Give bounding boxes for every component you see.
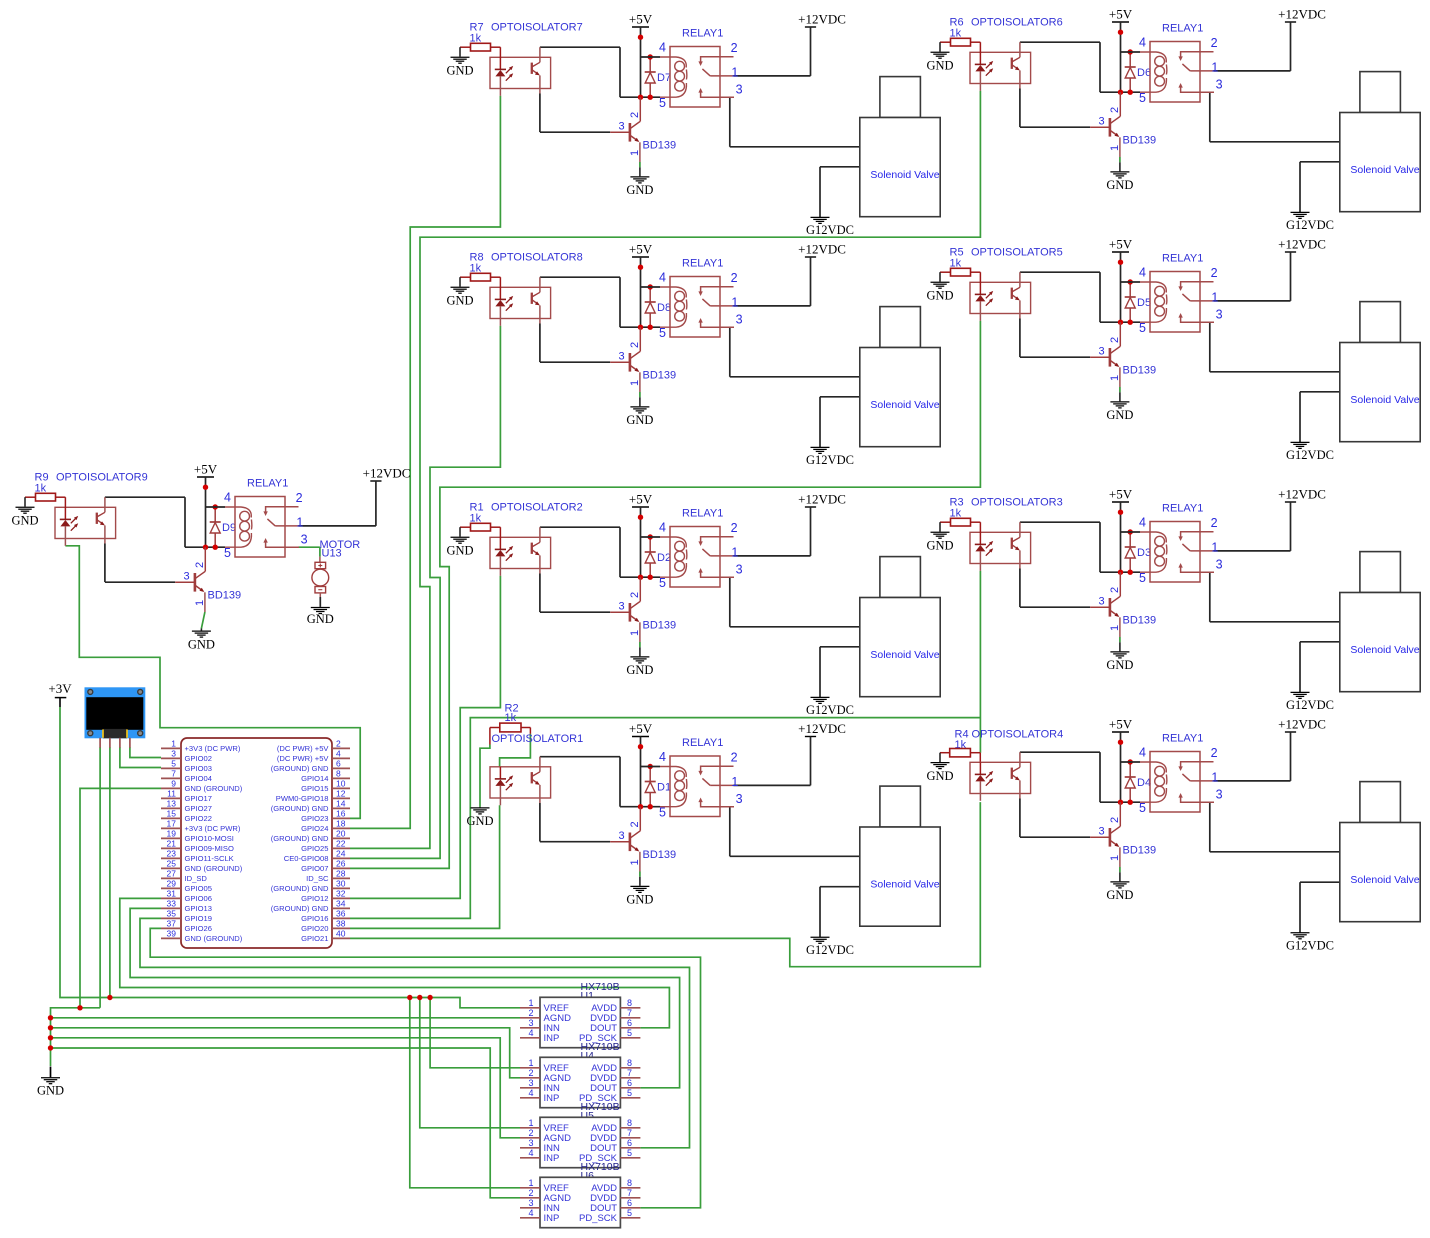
svg-text:GND: GND — [446, 543, 473, 557]
svg-text:6: 6 — [627, 1018, 632, 1028]
+12VDC supply — [798, 721, 846, 786]
svg-text:GND (GROUND): GND (GROUND) — [185, 864, 243, 873]
svg-text:2: 2 — [296, 491, 303, 505]
svg-text:2: 2 — [731, 521, 738, 535]
wire R4 to GPIO21 — [350, 802, 980, 967]
svg-text:+3V3 (DC PWR): +3V3 (DC PWR) — [185, 824, 241, 833]
wire — [1214, 780, 1291, 782]
transistor Q BD139 — [1090, 572, 1156, 637]
wire — [820, 167, 860, 217]
ground — [926, 763, 953, 783]
wire — [540, 803, 610, 842]
svg-text:1: 1 — [1211, 540, 1218, 554]
svg-text:1: 1 — [629, 859, 641, 865]
svg-text:4: 4 — [1139, 36, 1146, 50]
resistor R2 1k — [490, 703, 531, 745]
solenoid valve — [1340, 72, 1420, 212]
svg-text:+5V: +5V — [629, 721, 653, 736]
svg-text:17: 17 — [167, 819, 177, 829]
optoisolator OPTOISOLATOR3 — [970, 497, 1063, 571]
junction — [1118, 30, 1123, 35]
svg-text:G12VDC: G12VDC — [1286, 448, 1334, 462]
svg-text:1: 1 — [629, 380, 641, 386]
wire — [299, 525, 376, 527]
svg-text:(DC PWR) +5V: (DC PWR) +5V — [277, 744, 330, 753]
svg-text:BD139: BD139 — [643, 849, 677, 861]
svg-text:5: 5 — [1139, 321, 1146, 335]
svg-text:RELAY1: RELAY1 — [682, 27, 723, 39]
+12VDC supply — [1278, 716, 1326, 781]
solenoid valve — [1340, 302, 1420, 442]
wire — [540, 574, 610, 613]
resistor R4 1k — [940, 729, 980, 763]
svg-text:7: 7 — [627, 1068, 632, 1078]
svg-text:5: 5 — [659, 326, 666, 340]
ground G12VDC — [806, 217, 854, 237]
+5V supply — [629, 721, 653, 807]
relay RELAY1 — [641, 507, 743, 590]
svg-text:28: 28 — [336, 869, 346, 879]
wire — [1020, 89, 1090, 128]
optoisolator OPTOISOLATOR5 — [970, 247, 1063, 321]
junction — [1118, 570, 1123, 575]
svg-text:GPIO27: GPIO27 — [185, 804, 212, 813]
svg-text:OPTOISOLATOR8: OPTOISOLATOR8 — [491, 252, 583, 264]
optoisolator OPTOISOLATOR7 — [490, 22, 583, 96]
+12VDC supply — [1278, 236, 1326, 301]
junction — [77, 1005, 82, 1010]
svg-text:G12VDC: G12VDC — [806, 223, 854, 237]
svg-text:BD139: BD139 — [643, 370, 677, 382]
svg-text:3: 3 — [528, 1198, 533, 1208]
ground G12VDC — [806, 447, 854, 467]
diode D4 — [1125, 762, 1151, 802]
svg-text:GND: GND — [626, 663, 653, 677]
svg-text:G12VDC: G12VDC — [806, 703, 854, 717]
wire R3/R4 to GPIO16 — [979, 571, 981, 753]
wire — [319, 597, 321, 607]
junction — [1128, 800, 1133, 805]
+3V supply — [48, 681, 72, 707]
svg-text:2: 2 — [528, 1128, 533, 1138]
svg-text:RELAY1: RELAY1 — [1162, 22, 1203, 34]
svg-text:GND: GND — [926, 58, 953, 72]
svg-text:D3: D3 — [1137, 547, 1151, 559]
wire R9 to GPIO23 — [65, 546, 360, 819]
junction — [48, 1025, 53, 1030]
svg-text:16: 16 — [336, 809, 346, 819]
wire — [1119, 637, 1121, 642]
svg-text:GND: GND — [626, 183, 653, 197]
junction — [638, 265, 643, 270]
wire — [1119, 157, 1121, 162]
junction — [48, 1035, 53, 1040]
diode D9 — [210, 507, 236, 547]
svg-text:4: 4 — [659, 41, 666, 55]
svg-text:Solenoid Valve: Solenoid Valve — [870, 878, 939, 890]
svg-text:+5V: +5V — [1109, 486, 1133, 501]
svg-text:+5V: +5V — [1109, 236, 1133, 251]
wire DOUT U5 to GPIO19 — [140, 918, 690, 1147]
svg-text:GND: GND — [1106, 178, 1133, 192]
wire VREF U4 — [430, 998, 520, 1068]
wire — [1020, 319, 1090, 358]
svg-text:5: 5 — [1139, 571, 1146, 585]
svg-text:INP: INP — [544, 1093, 560, 1104]
svg-text:3: 3 — [184, 571, 190, 583]
wire OLED SCL to GPIO03 — [120, 747, 161, 767]
svg-text:13: 13 — [167, 799, 177, 809]
svg-text:OPTOISOLATOR4: OPTOISOLATOR4 — [972, 729, 1064, 741]
junction — [648, 54, 653, 59]
svg-text:33: 33 — [167, 899, 177, 909]
svg-text:35: 35 — [167, 909, 177, 919]
svg-text:18: 18 — [336, 819, 346, 829]
transistor Q BD139 — [1090, 802, 1156, 867]
svg-text:2: 2 — [1109, 817, 1121, 823]
relay RELAY1 — [1121, 732, 1223, 815]
transistor Q BD139 — [1090, 322, 1156, 387]
relay RELAY1 — [1121, 22, 1223, 105]
wire — [730, 97, 860, 147]
svg-text:5: 5 — [659, 576, 666, 590]
ground G12VDC — [806, 937, 854, 957]
svg-text:GPIO06: GPIO06 — [185, 894, 212, 903]
junction — [1118, 90, 1123, 95]
svg-text:4: 4 — [659, 271, 666, 285]
wire — [1214, 550, 1291, 552]
transistor Q BD139 — [610, 97, 676, 162]
svg-text:BD139: BD139 — [208, 590, 242, 602]
svg-text:2: 2 — [1109, 107, 1121, 113]
junction — [1128, 759, 1133, 764]
svg-text:(DC PWR) +5V: (DC PWR) +5V — [277, 754, 330, 763]
wire R2 to GPIO20 — [350, 805, 500, 928]
wire — [1214, 70, 1291, 72]
svg-text:GND (GROUND): GND (GROUND) — [185, 934, 243, 943]
svg-text:GPIO25: GPIO25 — [301, 844, 328, 853]
junction — [1128, 529, 1133, 534]
svg-text:38: 38 — [336, 919, 346, 929]
svg-text:2: 2 — [528, 1188, 533, 1198]
ground G12VDC — [806, 697, 854, 717]
svg-text:2: 2 — [194, 562, 206, 568]
svg-text:14: 14 — [336, 799, 346, 809]
wire — [201, 612, 205, 628]
ic U-RaspberryPi GPIO header — [161, 738, 350, 948]
ground G12VDC — [1286, 933, 1334, 953]
junction — [648, 325, 653, 330]
svg-text:D8: D8 — [657, 302, 671, 314]
svg-text:+5V: +5V — [194, 461, 218, 476]
svg-text:1: 1 — [1211, 290, 1218, 304]
svg-text:1: 1 — [171, 739, 176, 749]
svg-text:7: 7 — [171, 769, 176, 779]
svg-text:+12VDC: +12VDC — [363, 465, 411, 480]
junction — [1128, 320, 1133, 325]
svg-text:GND: GND — [188, 637, 215, 651]
wire — [1300, 882, 1340, 932]
junction — [48, 1015, 53, 1020]
svg-text:39: 39 — [167, 929, 177, 939]
ground G12VDC — [1286, 692, 1334, 712]
svg-text:GND: GND — [926, 769, 953, 783]
svg-text:GND: GND — [37, 1083, 64, 1097]
ground — [307, 608, 334, 626]
svg-text:2: 2 — [1211, 36, 1218, 50]
+12VDC supply — [363, 465, 411, 526]
transistor Q BD139 — [610, 577, 676, 642]
svg-text:G12VDC: G12VDC — [806, 943, 854, 957]
svg-text:GPIO21: GPIO21 — [301, 934, 328, 943]
svg-text:GPIO11-SCLK: GPIO11-SCLK — [185, 854, 234, 863]
junction — [213, 545, 218, 550]
ground — [1106, 392, 1133, 422]
+5V supply — [629, 241, 653, 327]
svg-text:1: 1 — [731, 295, 738, 309]
junction — [638, 744, 643, 749]
transistor Q BD139 — [610, 807, 676, 872]
svg-text:(GROUND) GND: (GROUND) GND — [271, 804, 329, 813]
svg-text:BD139: BD139 — [1123, 135, 1157, 147]
svg-text:GND: GND — [446, 63, 473, 77]
resistor R9 1k — [25, 472, 65, 502]
svg-text:OPTOISOLATOR7: OPTOISOLATOR7 — [491, 22, 583, 34]
svg-text:GND: GND — [446, 293, 473, 307]
wire — [1210, 572, 1340, 622]
svg-text:22: 22 — [336, 839, 346, 849]
svg-text:1k: 1k — [505, 712, 517, 724]
junction — [648, 534, 653, 539]
svg-text:1: 1 — [629, 150, 641, 156]
junction — [417, 995, 422, 1000]
svg-text:3: 3 — [1099, 596, 1105, 608]
svg-text:OPTOISOLATOR6: OPTOISOLATOR6 — [971, 17, 1063, 29]
svg-text:8: 8 — [627, 1178, 632, 1188]
resistor R3 1k — [940, 497, 980, 527]
svg-text:OPTOISOLATOR3: OPTOISOLATOR3 — [971, 497, 1063, 509]
svg-text:2: 2 — [1211, 516, 1218, 530]
wire — [639, 392, 641, 397]
transistor Q BD139 — [175, 547, 241, 612]
svg-text:3: 3 — [528, 1138, 533, 1148]
diode D7 — [645, 57, 671, 97]
junction — [648, 95, 653, 100]
svg-text:1: 1 — [1211, 60, 1218, 74]
svg-text:RELAY1: RELAY1 — [1162, 502, 1203, 514]
wire — [1020, 752, 1140, 802]
svg-text:GND: GND — [1106, 888, 1133, 902]
wire — [1020, 569, 1090, 608]
wire — [1119, 387, 1121, 392]
wire pin9 GND — [80, 788, 161, 1007]
svg-text:GPIO12: GPIO12 — [301, 894, 328, 903]
junction — [1118, 510, 1123, 515]
svg-text:4: 4 — [1139, 746, 1146, 760]
svg-text:GPIO02: GPIO02 — [185, 754, 212, 763]
svg-text:1: 1 — [731, 775, 738, 789]
svg-text:2: 2 — [1211, 746, 1218, 760]
svg-text:INP: INP — [544, 1033, 560, 1044]
junction — [427, 995, 432, 1000]
svg-text:21: 21 — [167, 839, 177, 849]
svg-text:GND: GND — [626, 893, 653, 907]
svg-text:34: 34 — [336, 899, 346, 909]
wire AGND U6 — [51, 1048, 521, 1198]
junction — [203, 545, 208, 550]
svg-text:GPIO16: GPIO16 — [301, 914, 328, 923]
junction — [1118, 740, 1123, 745]
svg-text:1: 1 — [528, 998, 533, 1008]
svg-text:D1: D1 — [657, 782, 671, 794]
svg-text:3: 3 — [736, 312, 743, 326]
wire — [480, 734, 530, 807]
junction — [107, 995, 112, 1000]
svg-text:2: 2 — [1109, 337, 1121, 343]
svg-text:3: 3 — [736, 82, 743, 96]
svg-text:37: 37 — [167, 919, 177, 929]
wire — [540, 94, 610, 133]
svg-text:5: 5 — [659, 96, 666, 110]
svg-text:3: 3 — [619, 830, 625, 842]
svg-text:4: 4 — [528, 1088, 533, 1098]
ground — [926, 522, 953, 552]
+5V supply — [1109, 716, 1133, 802]
svg-text:G12VDC: G12VDC — [1286, 218, 1334, 232]
svg-text:+12VDC: +12VDC — [1278, 6, 1326, 21]
wire — [730, 327, 860, 377]
ground — [626, 647, 653, 677]
svg-text:30: 30 — [336, 879, 346, 889]
ic U5 HX710B — [520, 1101, 640, 1168]
wire — [639, 872, 641, 877]
svg-text:7: 7 — [627, 1128, 632, 1138]
svg-text:GPIO07: GPIO07 — [301, 864, 328, 873]
junction — [638, 35, 643, 40]
wire OLED SDA to GPIO02 — [130, 747, 161, 757]
svg-text:Solenoid Valve: Solenoid Valve — [1350, 164, 1419, 176]
wire — [639, 162, 641, 167]
svg-text:5: 5 — [627, 1028, 632, 1038]
diode D3 — [1125, 532, 1151, 572]
svg-text:36: 36 — [336, 909, 346, 919]
svg-text:2: 2 — [629, 342, 641, 348]
svg-text:GPIO13: GPIO13 — [185, 904, 212, 913]
junction — [648, 764, 653, 769]
svg-text:U13: U13 — [322, 548, 342, 560]
svg-text:BD139: BD139 — [643, 140, 677, 152]
svg-text:2: 2 — [731, 271, 738, 285]
svg-text:11: 11 — [167, 789, 176, 799]
svg-text:5: 5 — [659, 806, 666, 820]
solenoid valve — [860, 77, 940, 217]
svg-text:8: 8 — [627, 998, 632, 1008]
svg-text:+3V: +3V — [48, 681, 72, 696]
svg-text:(GROUND) GND: (GROUND) GND — [271, 834, 329, 843]
svg-text:15: 15 — [167, 809, 177, 819]
svg-text:29: 29 — [167, 879, 177, 889]
resistor R7 1k — [460, 22, 500, 52]
wire — [734, 75, 811, 77]
svg-text:GND: GND — [626, 413, 653, 427]
wire — [1020, 799, 1090, 838]
ground — [11, 497, 38, 527]
svg-text:8: 8 — [336, 769, 341, 779]
transistor Q BD139 — [610, 327, 676, 392]
ground — [1106, 642, 1133, 672]
relay RELAY1 — [641, 257, 743, 340]
svg-text:RELAY1: RELAY1 — [682, 737, 723, 749]
ground — [446, 47, 473, 77]
svg-text:3: 3 — [619, 351, 625, 363]
wire — [734, 305, 811, 307]
svg-text:G12VDC: G12VDC — [1286, 698, 1334, 712]
svg-text:GND: GND — [11, 513, 38, 527]
svg-text:GPIO24: GPIO24 — [301, 824, 328, 833]
svg-text:3: 3 — [1216, 787, 1223, 801]
relay RELAY1 — [1121, 502, 1223, 585]
svg-text:RELAY1: RELAY1 — [247, 477, 288, 489]
relay RELAY1 — [206, 477, 308, 560]
svg-text:+12VDC: +12VDC — [1278, 486, 1326, 501]
svg-text:5: 5 — [627, 1148, 632, 1158]
svg-text:2: 2 — [1109, 587, 1121, 593]
wire — [1300, 642, 1340, 692]
transistor Q BD139 — [1090, 92, 1156, 157]
diode D6 — [1125, 52, 1151, 92]
ground — [1106, 162, 1133, 192]
svg-text:D4: D4 — [1137, 777, 1151, 789]
diode D8 — [645, 287, 671, 327]
svg-text:5: 5 — [1139, 91, 1146, 105]
solenoid valve — [1340, 782, 1420, 922]
solenoid valve — [860, 557, 940, 697]
svg-text:GPIO15: GPIO15 — [301, 784, 328, 793]
svg-text:GPIO14: GPIO14 — [301, 774, 328, 783]
svg-text:PD_SCK: PD_SCK — [579, 1213, 618, 1224]
wire DOUT U4 to GPIO13 — [130, 908, 680, 1087]
svg-text:3: 3 — [1216, 557, 1223, 571]
junction — [1128, 90, 1133, 95]
svg-text:3: 3 — [736, 792, 743, 806]
svg-text:12: 12 — [336, 789, 346, 799]
relay RELAY1 — [1121, 252, 1223, 335]
svg-text:8: 8 — [627, 1118, 632, 1128]
svg-text:3: 3 — [619, 601, 625, 613]
junction — [1128, 49, 1133, 54]
svg-text:+12VDC: +12VDC — [798, 721, 846, 736]
svg-text:2: 2 — [528, 1008, 533, 1018]
svg-text:3: 3 — [171, 749, 176, 759]
wire — [350, 718, 980, 919]
svg-text:4: 4 — [528, 1208, 533, 1218]
solenoid valve — [860, 307, 940, 447]
ground G12VDC — [1286, 442, 1334, 462]
ground — [188, 628, 215, 651]
svg-text:7: 7 — [627, 1188, 632, 1198]
svg-text:3: 3 — [1216, 77, 1223, 91]
wire — [540, 324, 610, 363]
svg-text:2: 2 — [629, 592, 641, 598]
ground — [626, 167, 653, 197]
svg-text:1: 1 — [1109, 855, 1121, 861]
svg-text:(GROUND) GND: (GROUND) GND — [271, 884, 329, 893]
ground — [446, 277, 473, 307]
wire — [1300, 392, 1340, 442]
svg-text:(GROUND) GND: (GROUND) GND — [271, 904, 329, 913]
svg-text:4: 4 — [528, 1148, 533, 1158]
svg-text:RELAY1: RELAY1 — [682, 507, 723, 519]
